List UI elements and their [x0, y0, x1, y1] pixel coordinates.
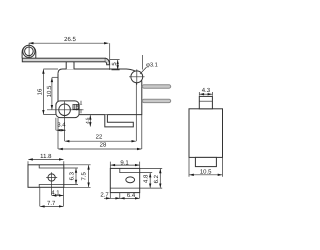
end view: button: [199, 96, 212, 108]
svg-text:7.7: 7.7: [47, 200, 56, 207]
svg-text:10.5: 10.5: [200, 169, 212, 176]
svg-text:φ3.1: φ3.1: [146, 62, 158, 69]
dimensions 2.7 and 6.4: [104, 193, 140, 199]
dimension 5 lever height: [110, 60, 120, 70]
dimension 26.5 lever length: [29, 43, 110, 70]
lug hole horizontal center line: [47, 109, 84, 111]
dimension 4.3 button width: [199, 92, 212, 96]
dimension 6.3: [64, 168, 78, 185]
mounting lug bottom-left: [56, 101, 79, 118]
spring hatch detail: [73, 104, 79, 109]
bottom view: outer rectangle: [110, 168, 139, 192]
terminal pin 2: [142, 99, 170, 102]
svg-text:4.3: 4.3: [202, 87, 211, 94]
end view: body: [189, 109, 223, 158]
top view: hole center lines: [46, 172, 57, 183]
lever end hook: [105, 58, 109, 65]
dimension 11.8: [28, 159, 64, 164]
top view: hole: [48, 174, 55, 181]
bottom view: oval hole: [126, 177, 135, 183]
end view: button step line: [199, 100, 212, 102]
dimension 4.5 terminal drop: [89, 115, 91, 126]
roller inner circle: [25, 47, 34, 56]
leader line phi3.1: [140, 67, 147, 74]
svg-text:3.5: 3.5: [76, 104, 81, 111]
dimension 9.1: [110, 162, 139, 169]
roller vertical center line: [28, 43, 30, 58]
dimension 6.2: [140, 168, 163, 187]
svg-text:2.7: 2.7: [100, 192, 109, 199]
svg-text:11.8: 11.8: [40, 153, 52, 160]
tiny dimension at hatch: [80, 101, 82, 114]
dimension 16 body height: [43, 69, 58, 115]
roller fork dome: [22, 45, 36, 58]
svg-text:4.8: 4.8: [143, 174, 150, 183]
bottom view: inner step lines: [110, 168, 139, 188]
svg-text:6.2: 6.2: [153, 174, 160, 183]
top view: inner step lines: [39, 165, 64, 188]
roller outer circle: [23, 45, 35, 57]
svg-text:26.5: 26.5: [64, 36, 76, 43]
top-right mounting hole: [131, 71, 143, 83]
lever bar: [22, 58, 105, 62]
top view: outer rectangle: [28, 165, 64, 188]
dimension 4.8: [140, 173, 163, 189]
top-right hole center lines: [129, 69, 145, 84]
svg-text:28: 28: [100, 141, 107, 148]
svg-text:4.1: 4.1: [51, 190, 60, 197]
dimension 7.7: [40, 187, 63, 206]
svg-text:6.3: 6.3: [68, 171, 75, 180]
lug hole vertical center line: [64, 102, 66, 119]
dimension 4.1: [52, 183, 64, 206]
svg-text:22: 22: [96, 134, 103, 141]
dimension 10.5: [52, 77, 58, 109]
end view: bottom foot: [195, 157, 216, 166]
svg-text:5: 5: [111, 62, 118, 66]
svg-text:7.5: 7.5: [81, 171, 88, 180]
plunger button on body top: [66, 60, 74, 69]
main side view: body left edge: [57, 73, 59, 101]
dimension 7.5: [64, 165, 91, 188]
stray vertical extension above body right edge: [141, 55, 143, 70]
svg-text:9.1: 9.1: [120, 159, 129, 166]
bent bottom terminal: [105, 115, 134, 127]
svg-text:4.5: 4.5: [85, 117, 90, 124]
svg-text:16: 16: [37, 88, 44, 95]
main side view: switch body outline: [58, 69, 142, 115]
svg-text:6.4: 6.4: [127, 192, 136, 199]
dimension 10.5 end view width: [189, 158, 223, 177]
lug hole: [59, 104, 71, 116]
svg-text:10.5: 10.5: [46, 85, 53, 97]
svg-text:3.4: 3.4: [57, 122, 66, 129]
dimension 3.4: [56, 118, 66, 141]
terminal pin 1: [142, 85, 170, 88]
dimension 28 body length: [58, 115, 142, 149]
dimension 22 hole spacing: [65, 83, 136, 142]
